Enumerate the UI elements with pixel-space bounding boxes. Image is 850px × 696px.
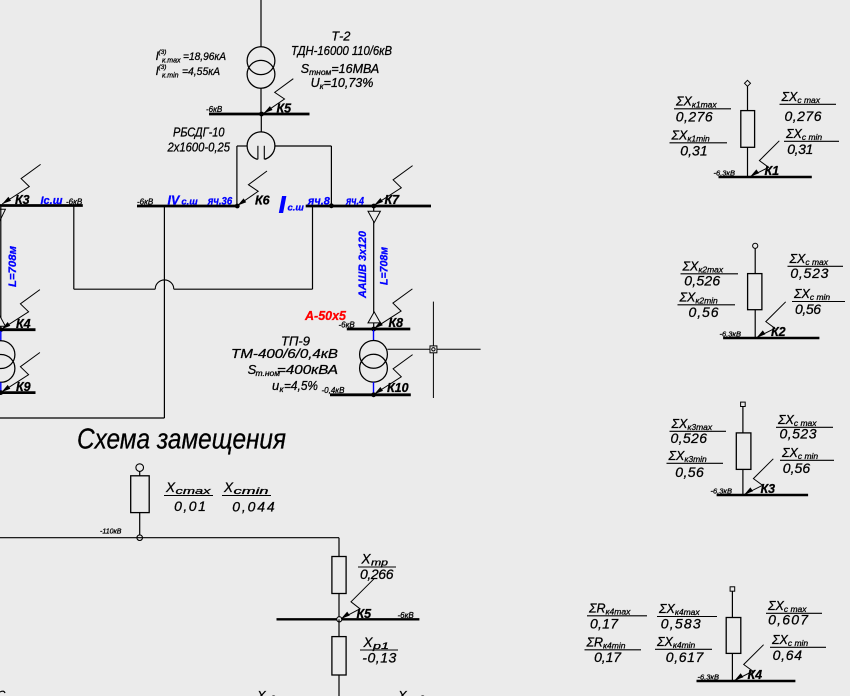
line 110kV: [0, 537, 339, 539]
svg-text:К3: К3: [761, 482, 776, 496]
fault arrow K3: [2, 164, 40, 204]
wire bus K8 to TP-9 transformer (blue): [373, 330, 375, 341]
svg-text:0,31: 0,31: [680, 143, 708, 159]
wire terminal to resistor К2: [754, 248, 756, 273]
svg-text:=4,55кА: =4,55кА: [182, 66, 220, 78]
svg-text:0,523: 0,523: [780, 426, 817, 442]
tie wire up to bus II: [312, 206, 314, 289]
wire Xr1 down: [338, 675, 340, 696]
svg-text:2х1600-0,25: 2х1600-0,25: [167, 141, 230, 155]
wire transformer to bus K9 (blue): [0, 382, 2, 392]
svg-text:0,31: 0,31: [787, 141, 813, 157]
partial mark bottom left: [0, 691, 5, 693]
junction dot K10: [371, 392, 376, 397]
svg-text:-0,4кВ: -0,4кВ: [322, 386, 346, 395]
reactor left lead wire: [237, 145, 247, 147]
svg-text:сmax: сmax: [176, 486, 212, 496]
bus K5 (6kV): [209, 113, 310, 116]
svg-text:L=708м: L=708м: [379, 247, 391, 285]
svg-text:-6кВ: -6кВ: [339, 320, 356, 329]
junction dot K4: [0, 327, 3, 332]
wire terminal to resistor К4: [731, 591, 733, 617]
wire resistor to bus К1: [747, 147, 749, 177]
svg-text:К4: К4: [748, 668, 763, 682]
svg-text:К6: К6: [255, 194, 271, 208]
wire resistor to bus К3: [742, 469, 744, 495]
junction dot K8: [371, 327, 376, 332]
fault arrow К3 equivalent: [744, 459, 773, 495]
wire K5 bus to reactor: [260, 114, 262, 132]
fault arrow К1 equivalent: [750, 141, 779, 177]
svg-text:К10: К10: [387, 381, 409, 395]
cable I s.sh to K4 (wire): [0, 207, 2, 330]
svg-text:-6,3кВ: -6,3кВ: [714, 168, 735, 177]
svg-text:ΣRк4max: ΣRк4max: [588, 602, 631, 617]
svg-text:0,266: 0,266: [360, 566, 394, 582]
svg-text:К5: К5: [277, 102, 293, 116]
svg-text:-6кВ: -6кВ: [137, 197, 154, 206]
cable head triangle below K7: [368, 211, 380, 222]
cable head triangle below bus I: [0, 209, 5, 221]
svg-text:0,526: 0,526: [684, 272, 720, 288]
svg-text:ΣXс min: ΣXс min: [781, 446, 818, 461]
svg-text:(3): (3): [159, 49, 167, 56]
tie wire bus I down: [73, 206, 75, 290]
feeder wire bus IV down: [163, 206, 165, 418]
svg-text:К9: К9: [16, 380, 31, 394]
svg-text:Sтном=16МВА: Sтном=16МВА: [301, 62, 380, 77]
svg-text:0,523: 0,523: [790, 265, 828, 281]
svg-text:с.ш: с.ш: [288, 203, 305, 214]
svg-text:L=708м: L=708м: [7, 246, 19, 287]
svg-text:0,17: 0,17: [594, 649, 622, 665]
svg-text:0,526: 0,526: [671, 430, 708, 446]
terminal node К2 equivalent: [753, 243, 758, 248]
svg-text:яч.4: яч.4: [345, 195, 364, 207]
node circle K5e: [337, 617, 342, 622]
transformer T-2 (two overlapping circles): [247, 47, 275, 75]
svg-text:0,617: 0,617: [666, 649, 705, 665]
wire Xc to 110kV node: [139, 513, 141, 535]
svg-text:0,583: 0,583: [661, 615, 701, 631]
resistor sum X К2: [748, 274, 762, 310]
wire TP-9 to bus K10 (blue): [373, 382, 375, 395]
wire bus K4 to transformer (blue): [0, 331, 2, 341]
bus K9: [0, 391, 36, 394]
fault arrow K6: [237, 171, 267, 206]
svg-text:=400кВА: =400кВА: [277, 362, 338, 377]
bus K10 (0,4kV): [330, 393, 411, 396]
svg-text:сmin: сmin: [234, 486, 269, 496]
svg-text:К4: К4: [16, 317, 31, 331]
wire 110kV line down to Xtr: [338, 538, 340, 557]
cable head triangle above K8: [368, 312, 380, 323]
svg-text:0,607: 0,607: [768, 611, 809, 627]
svg-text:К7: К7: [385, 193, 401, 207]
resistor Xtr (transformer reactance): [332, 557, 346, 594]
wire Xtr to K5e bus: [338, 594, 340, 620]
svg-text:I: I: [279, 192, 286, 218]
svg-text:РБСДГ-10: РБСДГ-10: [173, 126, 225, 140]
fault arrow K5 equivalent: [341, 579, 374, 619]
svg-text:Х: Х: [361, 552, 372, 567]
bus К2 equivalent (6,3kV): [723, 337, 819, 339]
svg-text:Т-2: Т-2: [331, 29, 351, 44]
svg-text:X: X: [223, 480, 234, 495]
crosshair reference lines: [387, 348, 480, 350]
svg-text:ΣXс max: ΣXс max: [781, 90, 821, 105]
svg-text:-6,3кВ: -6,3кВ: [711, 486, 732, 495]
svg-text:Uк=10,73%: Uк=10,73%: [311, 76, 374, 91]
transformer at left edge (two circles, cut off): [0, 341, 15, 369]
svg-text:яч.8: яч.8: [307, 195, 331, 207]
svg-text:яч.36: яч.36: [207, 196, 233, 208]
terminal node К1 equivalent: [745, 80, 751, 86]
wire terminal to resistor К1: [747, 86, 749, 110]
wire terminal to Xc resistor: [139, 471, 141, 475]
svg-text:ΣXс min: ΣXс min: [771, 633, 808, 648]
svg-text:0,56: 0,56: [675, 464, 704, 480]
svg-text:ААШВ 3х120: ААШВ 3х120: [357, 230, 369, 299]
svg-text:-6,3кВ: -6,3кВ: [698, 672, 719, 681]
fault arrow K4: [2, 290, 40, 330]
svg-text:0,276: 0,276: [676, 109, 713, 125]
svg-text:0,276: 0,276: [785, 108, 822, 124]
svg-text:0,56: 0,56: [795, 301, 821, 317]
bus К3 equivalent (6,3kV): [717, 494, 809, 496]
fault arrow K8: [374, 289, 412, 329]
fault arrow K5: [264, 79, 294, 114]
wire resistor to bus К2: [754, 310, 756, 338]
junction dot K9: [0, 390, 3, 395]
svg-text:0,56: 0,56: [689, 304, 719, 320]
bus К1 equivalent (6,3kV): [719, 176, 812, 178]
svg-text:0,17: 0,17: [590, 615, 619, 631]
svg-text:0,044: 0,044: [232, 499, 275, 515]
bus К4 equivalent (6,3kV): [697, 680, 796, 682]
svg-text:ТДН-16000 110/6кВ: ТДН-16000 110/6кВ: [291, 44, 392, 58]
svg-text:-110кВ: -110кВ: [100, 529, 122, 536]
svg-text:-6,3кВ: -6,3кВ: [720, 329, 741, 338]
reactor L1 (split reactor RBSDG-10): [247, 132, 275, 160]
svg-text:0,56: 0,56: [783, 460, 811, 476]
tie wire horizontal with jump over feeder: [74, 288, 155, 290]
resistor sum X К3: [736, 433, 751, 470]
crosshair center marker: [430, 346, 437, 353]
fault arrow К2 equivalent: [757, 302, 786, 338]
junction dot K6: [235, 204, 240, 209]
svg-text:к.min: к.min: [162, 73, 179, 80]
bus section II (right, 6kV): [306, 205, 431, 208]
cable K7 to K8 (wire): [373, 207, 375, 329]
junction dot K7: [371, 204, 376, 209]
svg-text:u: u: [272, 378, 279, 393]
reactor right lead wire: [275, 145, 332, 147]
svg-text:Хр2: Хр2: [256, 688, 276, 696]
svg-text:Х: Х: [363, 635, 374, 650]
svg-text:ΣXк3min: ΣXк3min: [668, 449, 708, 464]
junction dot K5: [259, 112, 264, 117]
svg-text:(3): (3): [159, 64, 167, 71]
wire 110kV feed to T-2: [260, 0, 262, 47]
svg-text:ТМ-400/6/0,4кВ: ТМ-400/6/0,4кВ: [231, 346, 338, 361]
fault arrow K9: [2, 353, 40, 393]
svg-text:ΣXк1max: ΣXк1max: [675, 95, 717, 110]
node circle on 110kV line: [137, 535, 143, 541]
cable head triangle above bus K4: [0, 315, 5, 326]
svg-text:-6кВ: -6кВ: [206, 105, 223, 114]
feeder wire horizontal to left transformer: [0, 417, 164, 419]
svg-text:ΣXк1min: ΣXк1min: [671, 129, 711, 144]
svg-text:=18,96кА: =18,96кА: [183, 51, 226, 63]
wire resistor to bus К4: [731, 653, 733, 681]
resistor Xr1 (reactor): [338, 619, 340, 636]
svg-text:X: X: [165, 480, 176, 495]
svg-text:-6кВ: -6кВ: [66, 197, 83, 206]
wire T-2 to K5 bus: [260, 88, 262, 114]
transformer TP-9 (two overlapping circles): [360, 341, 388, 369]
terminal node К3 equivalent: [741, 402, 746, 406]
fault arrow К4 equivalent: [735, 645, 764, 681]
svg-text:=4,5%: =4,5%: [284, 378, 318, 393]
bus section I (left, 6kV): [0, 204, 83, 207]
svg-text:Хр3: Хр3: [397, 688, 429, 696]
svg-text:ΣXс min: ΣXс min: [785, 127, 822, 142]
svg-text:0,01: 0,01: [174, 498, 206, 514]
fault arrow K7: [374, 166, 412, 206]
resistor sum X К4: [726, 618, 741, 654]
terminal node К4 equivalent: [730, 587, 735, 591]
svg-text:-6кВ: -6кВ: [398, 611, 415, 620]
svg-text:Iс.ш: Iс.ш: [41, 195, 63, 207]
junction dot reactor lead on bus II: [329, 203, 334, 208]
bus K4: [0, 328, 36, 331]
bus K8: [347, 328, 411, 331]
resistor sum X К1: [741, 111, 755, 148]
source terminal node: [136, 464, 144, 472]
bus K5 equivalent: [277, 618, 420, 620]
svg-text:-0,13: -0,13: [362, 649, 396, 665]
fault arrow K10: [374, 355, 412, 395]
svg-text:Схема замещения: Схема замещения: [77, 424, 286, 456]
resistor Xc (system reactance): [131, 476, 150, 513]
svg-text:IVс.ш: IVс.ш: [168, 194, 199, 208]
svg-text:ΣXк4min: ΣXк4min: [656, 635, 696, 650]
wire terminal to resistor К3: [742, 407, 744, 433]
svg-text:0,64: 0,64: [773, 647, 803, 663]
bus section IV (middle, 6kV): [137, 205, 239, 208]
svg-text:ΣXс min: ΣXс min: [793, 287, 830, 302]
